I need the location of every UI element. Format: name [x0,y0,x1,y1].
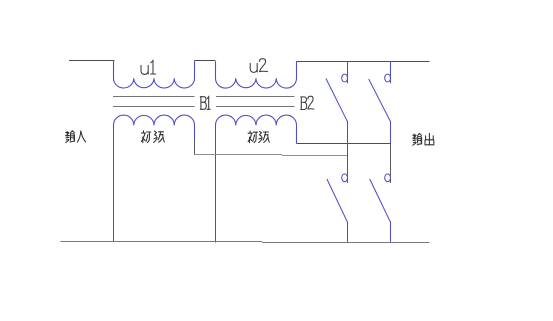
switch S1 lower: blade [327,179,347,222]
switch S1 lower: contact circle [342,174,348,182]
switch S2 upper: fixed stub [390,62,392,84]
wire: input top lead [69,60,115,62]
wire: primary2 left lead down [215,127,217,243]
switch S1 upper: fixed stub [347,62,349,84]
wire: output bus [297,143,391,145]
switch S1 lower: bottom tail [347,222,349,243]
wire: bottom bus [61,242,430,243]
label B2 [301,96,314,109]
core B2 line lower [216,106,295,108]
core B2 line upper [216,96,295,98]
switch S2 upper: blade [369,79,391,121]
wire: primary1 left lead down [113,127,115,242]
winding primary 1 of B1 [114,115,195,139]
wire: primary1 right lead down [194,139,196,155]
label 初级 (primary) of B1 [141,131,164,143]
label B1 [200,97,210,110]
winding u1 (transformer B1 secondary) [114,61,195,89]
label 输出 (output) [413,133,434,145]
wire: top right to switches [297,61,430,63]
wire: S2 column mid [390,144,392,184]
label u1 [141,61,156,75]
label 初级 (primary) of B2 [248,131,269,143]
core B1 line upper [113,96,195,98]
switch S1 upper: contact circle [342,74,348,82]
switch S1 upper: bottom tail [347,121,349,144]
wire: S1 column mid [347,144,349,184]
wire: primary1 right to switch column [195,155,348,156]
label u2 [250,59,267,73]
switch S1 upper: blade [326,78,347,121]
winding primary 2 of B2 [216,115,297,143]
label 输入 (input) [66,131,86,143]
winding u2 (transformer B2 secondary) [216,61,297,88]
wire: top segment between u1 and u2 [195,60,216,62]
switch S2 upper: bottom tail [390,121,392,144]
switch S2 upper: contact circle [385,74,391,82]
switch S2 lower: bottom tail [390,222,392,243]
switch S2 lower: contact circle [385,174,391,182]
core B1 line lower [113,106,195,108]
switch S2 lower: blade [370,179,391,222]
